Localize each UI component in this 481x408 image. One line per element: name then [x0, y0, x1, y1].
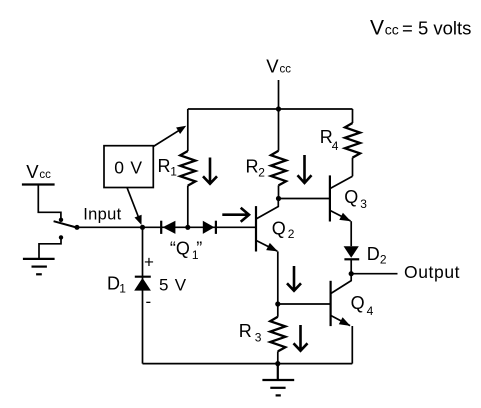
wire switch lower throw — [39, 239, 61, 259]
svg-text:cc: cc — [385, 22, 399, 38]
label Vcc (switch side) — [26, 161, 51, 182]
svg-text:+: + — [144, 253, 154, 272]
current arrow into Q2 base — [222, 208, 249, 222]
svg-text:D: D — [367, 244, 380, 264]
wire switch upper throw — [38, 185, 61, 219]
label D1 — [107, 273, 126, 295]
svg-text:5 V: 5 V — [159, 275, 187, 294]
svg-text:4: 4 — [332, 139, 339, 153]
svg-text:-: - — [146, 292, 152, 311]
svg-text:R: R — [239, 321, 252, 341]
svg-text:Q: Q — [351, 293, 365, 313]
node Q1 anode common — [185, 225, 190, 230]
resistor R2 — [278, 109, 280, 199]
wire Q4 base — [278, 303, 331, 305]
wire Q2 emitter drop — [277, 251, 279, 304]
svg-text:V: V — [266, 56, 279, 77]
svg-text:2: 2 — [288, 227, 295, 241]
svg-text:1: 1 — [119, 281, 126, 295]
svg-text:Output: Output — [404, 262, 460, 282]
current arrow beside R3 — [294, 325, 308, 351]
diode Q1 right (base diode) — [203, 221, 216, 234]
transistor Q2 — [256, 199, 278, 252]
node Q4 base / R3 top — [275, 301, 280, 306]
wire output — [351, 273, 397, 275]
svg-text:2: 2 — [380, 252, 387, 266]
label R1 — [158, 156, 178, 179]
svg-text:0 V: 0 V — [114, 158, 143, 178]
wire bottom rail — [143, 363, 353, 365]
transistor Q4 — [331, 274, 352, 326]
label Q3 — [344, 187, 367, 211]
svg-text:2: 2 — [258, 166, 265, 180]
resistor R4 — [352, 109, 354, 176]
label "Q1" — [170, 239, 202, 262]
annotation arrow to R1 — [153, 126, 186, 147]
power Vcc (switch side) — [22, 183, 55, 185]
wire Q3 emitter to D2 — [350, 221, 352, 246]
node switch upper contact — [59, 218, 63, 222]
svg-text:”: ” — [196, 239, 202, 259]
wire Q3 base — [279, 198, 330, 200]
diode D2 — [344, 246, 360, 259]
node output — [349, 271, 354, 276]
node switch lower contact — [59, 235, 63, 239]
wire D1 branch — [142, 227, 144, 363]
diode D1 (zener clamp) — [134, 277, 151, 291]
switch blade — [54, 221, 77, 227]
svg-text:V: V — [370, 17, 384, 40]
svg-text:4: 4 — [367, 304, 374, 318]
svg-text:V: V — [26, 161, 39, 182]
wire Q4 emitter drop — [351, 326, 353, 364]
svg-text:“Q: “Q — [170, 239, 190, 259]
label Vcc (top center) — [266, 56, 291, 77]
svg-text:R: R — [158, 156, 171, 176]
node input — [140, 225, 145, 230]
resistor R3 — [277, 304, 279, 364]
label Q4 — [351, 293, 374, 318]
svg-text:Q: Q — [344, 187, 358, 207]
label R2 — [246, 157, 266, 180]
annotation box 0 V — [104, 146, 153, 188]
svg-text:= 5 volts: = 5 volts — [402, 18, 471, 39]
node Q2 collector / R2 bottom — [276, 196, 281, 201]
wire Vcc stub — [278, 80, 280, 109]
current arrow beside R1 — [203, 158, 217, 184]
node ground junction — [275, 361, 280, 366]
svg-text:Input: Input — [83, 206, 121, 224]
label Q2 — [272, 218, 295, 241]
label R3 — [239, 321, 262, 344]
svg-text:R: R — [246, 157, 259, 177]
wire D2 to output node — [350, 259, 352, 273]
label Vcc = 5 volts (title) — [370, 17, 471, 40]
svg-text:3: 3 — [255, 331, 262, 345]
label R4 — [320, 127, 339, 153]
svg-text:D: D — [107, 273, 120, 293]
wire top rail Vcc — [188, 108, 353, 110]
current arrow beside R2 — [298, 155, 312, 183]
label D2 — [367, 244, 387, 267]
svg-text:Q: Q — [272, 218, 286, 238]
wire input line — [77, 226, 256, 228]
diode Q1 left (input diode) — [161, 221, 175, 234]
transistor Q3 — [330, 175, 353, 221]
svg-text:1: 1 — [170, 165, 177, 179]
current arrow Q2 emitter leg — [287, 266, 301, 291]
resistor R1 — [187, 109, 189, 227]
svg-text:cc: cc — [39, 169, 51, 181]
svg-text:cc: cc — [280, 64, 292, 76]
annotation arrow to input node — [127, 188, 142, 226]
ground (switch) — [23, 259, 55, 274]
svg-text:3: 3 — [360, 197, 367, 211]
node switch pole — [75, 225, 80, 230]
ground (center bottom) — [262, 364, 294, 396]
node Vcc rail junction — [276, 106, 281, 111]
